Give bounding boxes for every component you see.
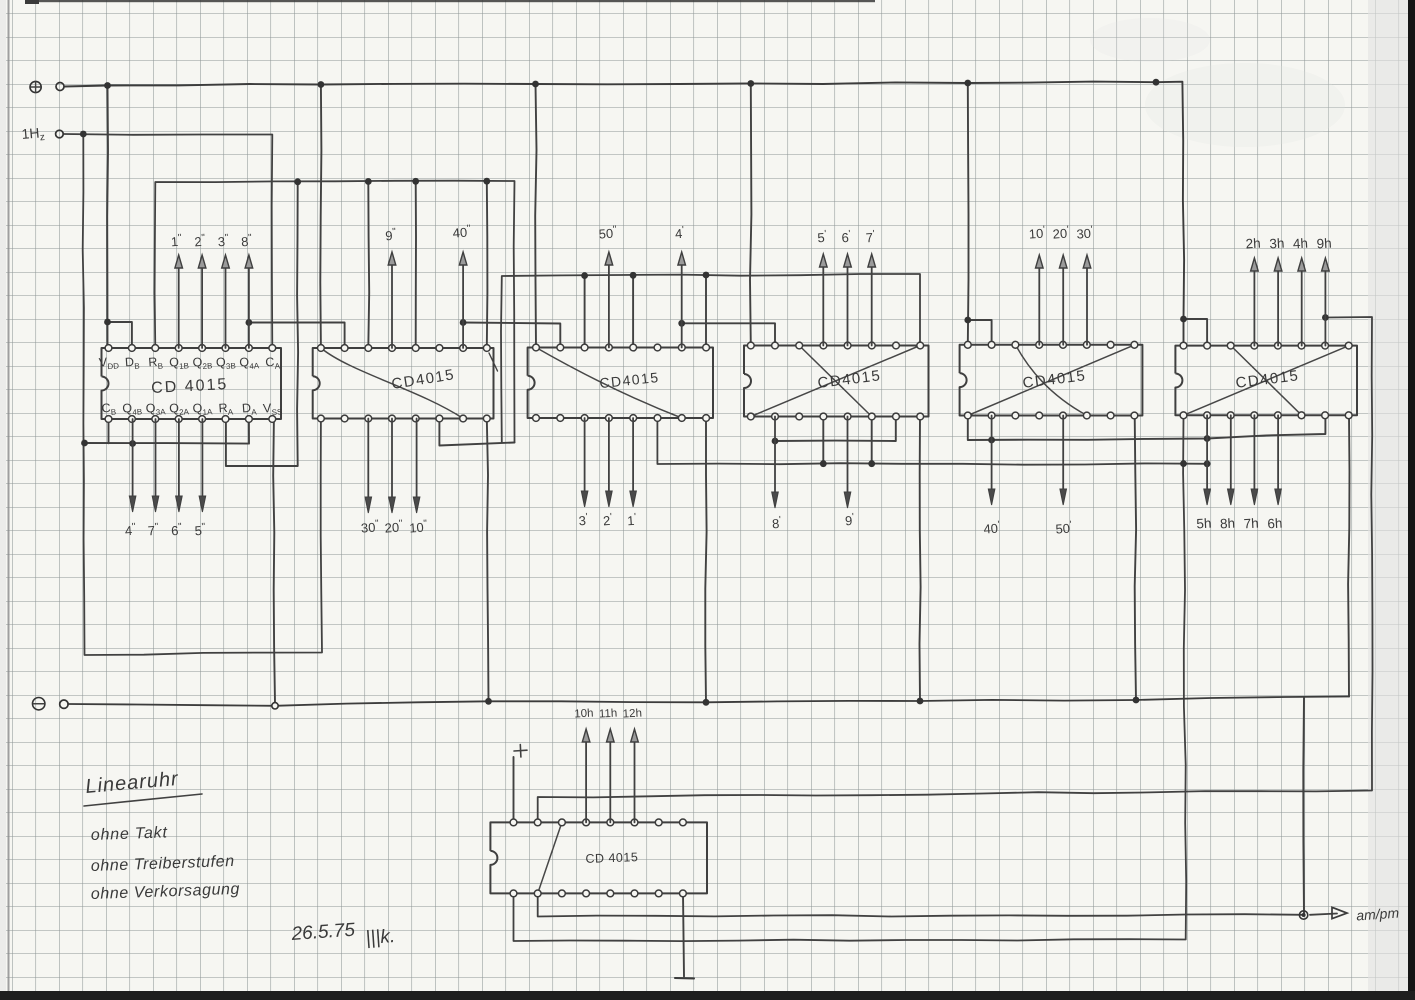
- pins U2: [318, 345, 325, 352]
- stray pencil mark near U2 pin8: [489, 353, 498, 371]
- output arrow 6 seconds down: [178, 419, 180, 500]
- wire step to U6 pin2: [1184, 319, 1208, 346]
- wire U4 8-minute feedback: [775, 417, 896, 442]
- output arrow 7 minutes up: [871, 264, 873, 346]
- node am/pm junction: [1299, 911, 1307, 919]
- scan edge right: [1368, 0, 1409, 1000]
- op IC U7 CD4015 body: [490, 822, 707, 893]
- wire am/pm tap from minus bus: [1302, 697, 1305, 915]
- junction hour-set bus x871: [868, 460, 875, 467]
- wire U7 plus supply lead: [513, 757, 515, 822]
- pins U1: [105, 345, 112, 352]
- IC U6 cross diagonal B: [1184, 346, 1350, 416]
- wire bus to U1 pin1 VDD: [106, 86, 109, 349]
- svg-text:4h: 4h: [1293, 236, 1309, 252]
- junction hour-set bus x823: [820, 460, 827, 467]
- output arrow 12h up: [634, 739, 636, 822]
- svg-text:3h: 3h: [1269, 236, 1285, 252]
- output arrow 8 seconds up: [248, 265, 250, 348]
- wire U5 pin1 feedback to U6 pin7: [968, 415, 1326, 440]
- svg-text:ohne Takt: ohne Takt: [91, 824, 168, 844]
- junction data chain x248: [246, 319, 253, 326]
- junction reset bus2 x706: [703, 272, 710, 279]
- output arrow 7 seconds down: [155, 419, 157, 500]
- wire U2 pin3 to reset bus: [367, 182, 370, 349]
- wire U2 pin5 to reset bus: [415, 181, 417, 348]
- output arrow 10 seconds down: [416, 419, 418, 502]
- output arrow 30 seconds down: [367, 419, 369, 502]
- pins U3: [533, 344, 540, 351]
- IC U6 cross diagonal A: [1231, 346, 1302, 416]
- output arrow 2 minutes down: [608, 418, 610, 495]
- junction hour-set bus x1183: [1180, 460, 1187, 467]
- op IC U2 CD4015 body: [313, 348, 494, 419]
- wire U3 pin7 to U4 data pin2: [682, 323, 775, 345]
- output arrow 5 seconds down: [201, 419, 203, 500]
- junction reset bus2 x584: [581, 272, 588, 279]
- svg-text:12h: 12h: [622, 708, 642, 721]
- output arrow 20 seconds down: [391, 419, 393, 502]
- output arrow 30 minutes up: [1086, 265, 1088, 345]
- wire U3 pin3 to reset bus2: [584, 276, 586, 348]
- output arrow 4 seconds down: [132, 419, 134, 500]
- svg-text:50': 50': [1055, 519, 1073, 536]
- output arrow 3 seconds up: [225, 265, 227, 348]
- output arrow 50 seconds: [608, 262, 610, 348]
- wire U3 pin6 to hour-set bus: [657, 418, 1207, 465]
- junction data chain x1325: [1322, 314, 1329, 321]
- wire U6 pin8 to minus bus corner: [1348, 415, 1349, 696]
- output arrow 5 minutes up: [822, 264, 824, 346]
- scan edge bottom: [0, 991, 1415, 1000]
- op IC U4 CD4015 body: [744, 346, 929, 417]
- output arrow 4 minutes: [681, 262, 683, 348]
- wire reset bus row1: [155, 181, 515, 443]
- op IC U3 CD4015 body: [528, 348, 713, 419]
- wire U6 pin1 down to U7 pin1 bottom: [514, 415, 1187, 941]
- junction top bus x320: [318, 81, 325, 88]
- junction hour-set bus x1207: [1204, 460, 1211, 467]
- output arrow 40 minutes: [991, 416, 993, 494]
- output arrow 2h up: [1253, 268, 1255, 346]
- junction top bus x535: [532, 81, 539, 88]
- output arrow 4h up: [1301, 268, 1303, 346]
- op IC U5 CD4015 body: [960, 345, 1143, 416]
- junction data chain x107: [104, 319, 111, 326]
- wire U3 pin8 to reset bus2: [705, 275, 707, 348]
- wire U3 pin8 to minus bus: [705, 418, 706, 702]
- wire U2 pin8 to reset bus: [486, 181, 489, 348]
- wire bus to U4 pin1: [750, 84, 751, 346]
- svg-text:am/pm: am/pm: [1356, 905, 1400, 924]
- junction top bus x1156: [1153, 79, 1160, 86]
- junction top bus x750: [747, 80, 754, 87]
- output arrow 3 minutes down: [584, 418, 586, 495]
- pins U5: [964, 341, 971, 348]
- terminal plus supply: [30, 81, 41, 92]
- wire U2 pin8 down to minus bus: [487, 419, 489, 702]
- output arrow 9 seconds: [391, 262, 393, 348]
- svg-text:30': 30': [1076, 224, 1094, 241]
- output arrow 6h down: [1277, 415, 1279, 493]
- pins U7: [510, 819, 517, 826]
- node VSS on minus bus: [272, 703, 278, 709]
- wire U2 pin6 step: [439, 419, 514, 446]
- wire am/pm output arrow: [1310, 914, 1337, 915]
- output arrow 20 minutes up: [1062, 265, 1064, 345]
- junction reset bus1 x415: [412, 178, 419, 185]
- junction minus bus x920: [917, 698, 924, 705]
- wire U1 Q4A to U2 data pin2: [249, 323, 345, 349]
- svg-text:10h: 10h: [574, 708, 594, 721]
- wire U6 pin7 to U7 data pin2: [538, 317, 1373, 822]
- IC U2 shift diagonal: [321, 348, 463, 419]
- plus symbol: [514, 749, 527, 752]
- pins U4: [747, 342, 754, 349]
- svg-text:40': 40': [983, 519, 1001, 536]
- wire U4 pin8 to minus bus: [920, 417, 921, 702]
- junction U1 feedback x132: [129, 440, 136, 447]
- wire 1Hz input to U1 pin CA: [64, 134, 273, 348]
- junction top bus x967: [964, 80, 971, 87]
- junction minus bus x706: [703, 699, 710, 706]
- junction data chain x1183: [1180, 316, 1187, 323]
- wire U2 pin7 to U3 data pin2: [463, 323, 560, 348]
- IC U4 cross diagonal A: [799, 346, 872, 417]
- svg-text:CD 4015: CD 4015: [585, 850, 638, 866]
- op IC U6 CD4015 body: [1175, 346, 1357, 416]
- svg-text:6h: 6h: [1267, 516, 1283, 532]
- IC U7 shift diagonal: [538, 822, 562, 893]
- svg-text:11h: 11h: [599, 708, 618, 721]
- wire U4 pin4 to hour-set bus: [822, 417, 824, 464]
- wire reset bus row2: [501, 274, 920, 443]
- wire step to U5 pin2: [968, 320, 992, 345]
- output arrow 7h down: [1253, 415, 1255, 493]
- output arrow 6 minutes up: [847, 264, 849, 346]
- svg-text:8h: 8h: [1220, 516, 1236, 532]
- wire 1Hz branch down left side to U2 clock pin: [83, 134, 322, 655]
- wire bus to U2 pin1: [320, 85, 321, 349]
- junction data chain x681: [678, 320, 685, 327]
- wire U7 pin8 bottom to minus terminal: [683, 893, 684, 976]
- svg-text:10': 10': [1028, 224, 1046, 241]
- wire U7 pin2 bottom to am/pm node: [538, 893, 1304, 916]
- svg-text:20': 20': [1052, 224, 1070, 241]
- output arrow 40 seconds: [462, 262, 464, 348]
- IC U3 shift diagonal: [536, 348, 682, 419]
- output arrow 1 seconds up: [178, 265, 180, 348]
- minus terminal tick: [675, 977, 694, 980]
- op IC U1 CD4015 body: [102, 348, 282, 419]
- wire bus to U5 pin1: [967, 83, 970, 345]
- wire U1 CB drop: [108, 419, 110, 443]
- output arrow 11h up: [609, 739, 611, 822]
- junction U5-U6 feedback x1207: [1204, 435, 1211, 442]
- junction dot 1Hz branch: [80, 131, 87, 138]
- svg-text:7h: 7h: [1243, 516, 1259, 532]
- wire minus supply bus: [68, 697, 1349, 706]
- output arrow 8 minutes: [774, 417, 776, 497]
- junction data chain x967: [964, 317, 971, 324]
- wire U4 pin6 to hour-set bus: [871, 417, 873, 464]
- output arrow 9 minutes: [847, 417, 849, 497]
- junction U5-U6 feedback x991: [988, 437, 995, 444]
- IC U5 cross diagonal A: [1016, 345, 1088, 416]
- svg-text:|||k.: |||k.: [365, 926, 396, 949]
- pins U6: [1180, 342, 1187, 349]
- junction reset bus1 x297: [294, 178, 301, 185]
- output arrow 9h up: [1324, 268, 1326, 346]
- scan edge left: [8, 0, 10, 1000]
- wire U3 pin5 to reset bus2: [632, 275, 634, 347]
- terminal circle 1Hz: [56, 130, 64, 138]
- junction top bus x107: [104, 82, 111, 89]
- svg-text:5h: 5h: [1196, 516, 1212, 532]
- output arrow 2 seconds up: [201, 265, 203, 348]
- paper smudge top right: [1145, 63, 1345, 147]
- svg-text:9h: 9h: [1316, 236, 1332, 252]
- output arrow 5h down: [1206, 415, 1208, 493]
- scan edge top: [25, 0, 875, 2]
- wire U1 VSS to minus bus: [273, 419, 275, 703]
- IC U5 cross diagonal B: [968, 345, 1135, 416]
- junction dot U4 feedback: [772, 438, 779, 445]
- output arrow 50 minutes: [1062, 416, 1064, 494]
- wire U5 pin8 to minus bus: [1135, 416, 1136, 701]
- junction reset bus1 x486: [483, 178, 490, 185]
- terminal minus supply: [33, 698, 45, 710]
- wire U1 RA to reset bus: [226, 182, 298, 466]
- junction data chain x463: [460, 319, 467, 326]
- output arrow 3h up: [1277, 268, 1279, 346]
- wire U1 CB QB4 DA feedback: [85, 419, 250, 444]
- output arrow 8h down: [1230, 415, 1232, 493]
- output arrow 10 minutes up: [1038, 265, 1040, 345]
- terminal circle minus: [60, 700, 68, 708]
- output arrow 10h up: [585, 739, 587, 822]
- wire step to U1 pin2 DB: [108, 322, 132, 348]
- IC U4 cross diagonal B: [751, 346, 920, 417]
- output arrow 1 minutes down: [632, 418, 634, 495]
- junction U1 feedback x84: [81, 440, 88, 447]
- junction reset bus2 x633: [630, 272, 637, 279]
- wire bus to U3 pin1: [535, 84, 536, 348]
- junction minus bus x1136: [1133, 697, 1140, 704]
- wire VDD top supply bus from + terminal: [65, 82, 1185, 346]
- junction minus bus x488: [485, 698, 492, 705]
- junction reset bus1 x368: [365, 178, 372, 185]
- terminal circle plus: [56, 83, 64, 91]
- svg-text:2h: 2h: [1245, 236, 1261, 252]
